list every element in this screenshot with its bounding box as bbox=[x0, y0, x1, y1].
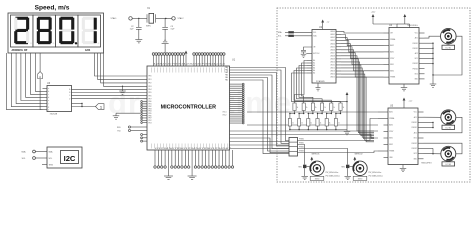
wire servo1 signal bbox=[298, 145, 305, 165]
svg-text:LED13: LED13 bbox=[330, 71, 335, 73]
svg-text:PGND1: PGND1 bbox=[413, 48, 418, 50]
svg-text:OE: OE bbox=[313, 47, 315, 49]
motor M2 wires bbox=[424, 116, 441, 118]
wire PWM1 to block bbox=[230, 144, 290, 146]
wire U2 A5 to ladder bbox=[292, 73, 341, 103]
microcontroller U1 body bbox=[147, 66, 230, 150]
svg-text:LED02: LED02 bbox=[330, 37, 335, 39]
DC motor M1 bbox=[441, 28, 457, 44]
svg-text:PB0: PB0 bbox=[149, 101, 152, 103]
svg-text:SERVO1: SERVO1 bbox=[311, 154, 320, 156]
wire PWM bundle 5 bbox=[230, 80, 290, 154]
svg-text:PB6: PB6 bbox=[149, 115, 152, 117]
digit cell 1 showing 2 bbox=[11, 15, 34, 47]
wires U2 bundle down bbox=[341, 56, 374, 131]
wire TRIG stub bbox=[42, 164, 47, 166]
wire PWM bundle 1 bbox=[230, 70, 290, 143]
wire to ground bbox=[191, 150, 193, 176]
svg-text:PW_MIN=544us: PW_MIN=544us bbox=[326, 172, 339, 174]
svg-text:MICROCONTROLLER: MICROCONTROLLER bbox=[161, 105, 217, 111]
digit cell 3 showing 0 bbox=[56, 15, 79, 47]
wire digit select 4 bbox=[104, 53, 148, 86]
svg-text:Speed, m/s: Speed, m/s bbox=[35, 5, 70, 12]
wire segment a display to U3 bbox=[7, 53, 43, 110]
DC motor M3 bbox=[441, 146, 456, 161]
svg-text:PW_MAX=2400us: PW_MAX=2400us bbox=[369, 174, 383, 177]
svg-text:BO1: BO1 bbox=[414, 138, 417, 140]
wire STBY U5 bbox=[230, 130, 379, 132]
zigzag link 6 bbox=[336, 111, 341, 119]
svg-text:XTAL2: XTAL2 bbox=[178, 17, 185, 20]
U2 OE pin with pulldown bbox=[304, 47, 313, 50]
svg-text:LED09: LED09 bbox=[330, 58, 335, 60]
resistor R6b bbox=[334, 119, 337, 127]
svg-text:LED01: LED01 bbox=[330, 34, 335, 36]
wire SDA bbox=[35, 151, 47, 153]
capacitor C2 bbox=[138, 18, 140, 27]
zigzag link 1 bbox=[290, 111, 295, 119]
U4 ground bbox=[403, 84, 405, 88]
MCU right unconnected pins bbox=[230, 83, 243, 85]
connector SERVO1 bbox=[303, 165, 306, 168]
svg-text:PWM0: PWM0 bbox=[299, 139, 304, 141]
svg-text:BO2: BO2 bbox=[414, 153, 417, 155]
svg-text:EXTCLK: EXTCLK bbox=[313, 53, 320, 55]
svg-text:+12v: +12v bbox=[409, 101, 413, 103]
ground SERVO2 bbox=[347, 168, 349, 176]
terminal XTAL2 bbox=[172, 17, 175, 20]
svg-text:PE4: PE4 bbox=[149, 89, 152, 91]
wire AIN1 U5 bbox=[247, 111, 378, 113]
svg-text:TB6612FNG: TB6612FNG bbox=[421, 163, 432, 165]
svg-text:PE5: PE5 bbox=[149, 92, 152, 94]
svg-text:B: B bbox=[69, 92, 70, 94]
svg-text:SERVO2: SERVO2 bbox=[354, 154, 363, 156]
svg-text:PE2: PE2 bbox=[149, 83, 152, 85]
wire U2 A2 to ladder bbox=[299, 66, 313, 104]
ground SERVO1 bbox=[304, 168, 306, 176]
wire to ground bbox=[167, 150, 169, 176]
MCU left unconnected pins bbox=[143, 101, 147, 103]
svg-text:RX0: RX0 bbox=[117, 127, 121, 129]
wire PWM bundle 3 bbox=[230, 75, 290, 148]
svg-text:PE0: PE0 bbox=[149, 76, 152, 78]
U5 +12V arrow bbox=[403, 98, 406, 101]
svg-text:PGND1: PGND1 bbox=[412, 122, 417, 124]
svg-text:BIN2: BIN2 bbox=[390, 70, 394, 72]
motor M1 label bbox=[442, 45, 455, 49]
net flag on DP wire bbox=[38, 72, 43, 79]
wire PWM3 to block bbox=[230, 138, 290, 153]
svg-text:PB7: PB7 bbox=[149, 118, 152, 120]
+5V arrow SERVO1 bbox=[310, 157, 313, 160]
svg-text:a: a bbox=[48, 88, 49, 90]
motor M3 wires bbox=[424, 153, 441, 155]
svg-text:b: b bbox=[48, 91, 49, 93]
svg-text:BO1: BO1 bbox=[415, 58, 418, 60]
wire PWM bundle 2 bbox=[230, 73, 290, 146]
svg-text:LED15: LED15 bbox=[330, 77, 335, 79]
U5 ground bbox=[402, 165, 404, 169]
ladder top rail bbox=[295, 101, 348, 103]
svg-text:LED07: LED07 bbox=[330, 52, 335, 54]
svg-text:d: d bbox=[48, 97, 49, 99]
svg-text:PWM3: PWM3 bbox=[299, 151, 304, 153]
wire U2 A4 to ladder bbox=[294, 71, 331, 104]
wire PWM2 to block bbox=[230, 148, 290, 150]
wire PWM0 to block bbox=[230, 141, 290, 143]
svg-text:LED06: LED06 bbox=[330, 49, 335, 51]
svg-text:PGND1: PGND1 bbox=[412, 127, 417, 129]
ground ladder bbox=[346, 130, 348, 132]
svg-text:LED14: LED14 bbox=[330, 74, 335, 76]
terminal SCL bbox=[33, 157, 36, 160]
svg-text:SDA: SDA bbox=[21, 150, 26, 153]
ground near U3 bbox=[116, 112, 140, 114]
svg-text:PGND2: PGND2 bbox=[412, 143, 417, 145]
wire U2 A0 to ladder bbox=[295, 61, 307, 104]
PWM connector block bbox=[289, 138, 298, 157]
svg-text:BIN1: BIN1 bbox=[389, 138, 393, 140]
svg-text:PE1: PE1 bbox=[149, 79, 152, 81]
svg-text:PWM2: PWM2 bbox=[299, 147, 304, 149]
connector SERVO2 bbox=[346, 165, 349, 168]
resistor R6a bbox=[339, 103, 342, 111]
svg-text:PB5: PB5 bbox=[149, 113, 152, 115]
wire U3 to MCU bbox=[72, 95, 148, 97]
wire segment DP to U3 bbox=[39, 53, 41, 110]
svg-text:▲: ▲ bbox=[39, 76, 42, 79]
svg-text:LED12: LED12 bbox=[330, 68, 335, 70]
svg-text:PB2: PB2 bbox=[149, 106, 152, 108]
BCD decoder U3 bbox=[47, 86, 72, 112]
svg-text:SCL: SCL bbox=[49, 158, 53, 160]
MCU top pin header group 2 bbox=[193, 55, 195, 66]
svg-text:DC M1: DC M1 bbox=[446, 47, 452, 49]
svg-text:PW_MAX=2400us: PW_MAX=2400us bbox=[326, 174, 340, 177]
zigzag link 4 bbox=[318, 111, 323, 119]
svg-text:1234: 1234 bbox=[85, 49, 91, 52]
MCU RX TX pins bbox=[131, 126, 147, 128]
wire segment g display to U3 bbox=[35, 53, 42, 91]
resistor R3a bbox=[311, 103, 314, 111]
wire U3 to MCU bbox=[72, 98, 148, 100]
svg-text:SG90: SG90 bbox=[358, 179, 363, 181]
MCU bottom pins bbox=[154, 150, 156, 166]
MCU inner pin label fuzz top bbox=[151, 68, 153, 73]
zigzag link 2 bbox=[299, 111, 304, 119]
svg-text:h: h bbox=[48, 109, 49, 111]
svg-text:PW_MIN=544us: PW_MIN=544us bbox=[369, 172, 382, 174]
wires U2 to U4 bbox=[341, 32, 384, 33]
dashed module border bbox=[277, 8, 470, 182]
svg-text:PGND1: PGND1 bbox=[413, 43, 418, 45]
U2 VSS ground bbox=[317, 83, 319, 88]
svg-text:g: g bbox=[48, 106, 49, 108]
wire U2 A3 to ladder bbox=[297, 68, 323, 103]
resistor R3b bbox=[307, 119, 310, 127]
motor M3 label bbox=[442, 162, 455, 166]
wire segment c display to U3 bbox=[16, 53, 42, 104]
svg-text:PGND2: PGND2 bbox=[413, 63, 418, 65]
resistor R2b bbox=[298, 119, 301, 127]
ground tap on select wire bbox=[122, 86, 123, 87]
wire SCL bbox=[35, 157, 47, 159]
svg-text:BIN1: BIN1 bbox=[390, 64, 394, 66]
wire digit select 3 bbox=[101, 53, 147, 83]
terminal SDA bbox=[33, 150, 36, 153]
wire segment f display to U3 bbox=[31, 53, 43, 94]
svg-text:74LS48: 74LS48 bbox=[50, 114, 58, 116]
motor M1 wires bbox=[425, 36, 441, 38]
wire U3 to MCU bbox=[72, 88, 148, 90]
ground C2 bbox=[135, 40, 142, 43]
ladder bottom bus bbox=[290, 129, 347, 131]
svg-text:TRIG: TRIG bbox=[49, 165, 54, 167]
wire PWM bundle 0 bbox=[230, 68, 290, 141]
net flag 1 bbox=[96, 104, 105, 110]
svg-text:LED10: LED10 bbox=[330, 61, 335, 63]
svg-text:PB3: PB3 bbox=[149, 108, 152, 110]
motor M2 label bbox=[442, 125, 455, 129]
+5V arrow ladder bbox=[346, 92, 349, 95]
svg-text:PE7: PE7 bbox=[149, 98, 152, 100]
svg-text:LED03: LED03 bbox=[330, 40, 335, 42]
svg-text:e: e bbox=[48, 100, 49, 102]
decimal point bbox=[75, 42, 77, 44]
svg-text:PWMB: PWMB bbox=[389, 151, 394, 153]
wire U3 to MCU bbox=[72, 92, 148, 94]
svg-text:PD2: PD2 bbox=[149, 120, 152, 122]
svg-text:SCL: SCL bbox=[313, 32, 316, 34]
svg-text:15pF: 15pF bbox=[171, 29, 175, 31]
wire xtal left bbox=[132, 17, 147, 19]
wire servo2 signal bbox=[298, 149, 348, 165]
svg-text:PE3: PE3 bbox=[149, 86, 152, 88]
svg-text:ABCDEFG DP: ABCDEFG DP bbox=[12, 49, 28, 52]
resistor R4a bbox=[321, 103, 324, 111]
svg-text:PGND2: PGND2 bbox=[413, 68, 418, 70]
svg-text:LED11: LED11 bbox=[330, 64, 335, 66]
svg-text:+5v: +5v bbox=[327, 22, 330, 24]
svg-text:PE6: PE6 bbox=[149, 95, 152, 97]
wire segment e display to U3 bbox=[26, 53, 43, 97]
U2 VCC arrow bbox=[321, 20, 324, 23]
wire digit select 2 bbox=[98, 53, 147, 79]
svg-text:TX0: TX0 bbox=[117, 130, 120, 132]
svg-text:PB4: PB4 bbox=[149, 111, 152, 113]
svg-text:LED08: LED08 bbox=[330, 55, 335, 57]
svg-text:SG90: SG90 bbox=[315, 179, 320, 181]
svg-text:SCL: SCL bbox=[278, 36, 282, 38]
zigzag link 3 bbox=[308, 111, 313, 119]
MCU top pin header group 1 bbox=[153, 55, 155, 66]
svg-text:PD3: PD3 bbox=[149, 122, 152, 124]
svg-text:123456789012345678901234: 123456789012345678901234 bbox=[153, 64, 226, 66]
resistor R4b bbox=[316, 119, 319, 127]
zigzag link 5 bbox=[327, 111, 332, 119]
svg-text:+12v: +12v bbox=[371, 12, 375, 14]
svg-text:LED05: LED05 bbox=[330, 46, 335, 48]
wire PWM bundle 4 bbox=[230, 78, 290, 152]
digit cell 4 showing 1 bbox=[78, 15, 101, 47]
wire digit select 1 bbox=[95, 53, 148, 76]
ground C3 shared bbox=[162, 40, 169, 43]
+5V arrow SERVO2 bbox=[353, 157, 356, 160]
digit cell 2 showing 8 bbox=[33, 15, 56, 47]
resistor R5b bbox=[325, 119, 328, 127]
wire AIN2 U5 bbox=[247, 124, 378, 126]
svg-text:DC M3: DC M3 bbox=[446, 164, 452, 166]
svg-text:PCA9685: PCA9685 bbox=[316, 80, 325, 83]
svg-text:OSC1: OSC1 bbox=[222, 112, 226, 114]
svg-text:LED04: LED04 bbox=[330, 43, 335, 45]
wire PWMB U5 bbox=[298, 151, 379, 153]
svg-text:I2C: I2C bbox=[64, 154, 76, 163]
wire segment b display to U3 bbox=[11, 53, 42, 107]
resistor R2a bbox=[302, 103, 305, 111]
U2 EXTCLK stub bbox=[306, 53, 312, 55]
svg-text:PWM1: PWM1 bbox=[299, 143, 304, 145]
svg-text:PWMB: PWMB bbox=[390, 77, 395, 79]
capacitor C3 bbox=[164, 18, 166, 27]
wire PWMA U5 bbox=[298, 119, 379, 141]
ground motor bus bbox=[432, 75, 434, 84]
wire segment d display to U3 bbox=[21, 53, 43, 101]
resistor R1b bbox=[288, 119, 291, 127]
svg-text:TB6612FNG: TB6612FNG bbox=[407, 25, 418, 27]
I2C module box bbox=[47, 147, 82, 168]
svg-text:15pF: 15pF bbox=[130, 29, 134, 31]
wire BIN1 U5 bbox=[230, 135, 379, 139]
svg-text:LED00: LED00 bbox=[330, 31, 335, 33]
wire xtal right bbox=[156, 17, 172, 19]
vcc arrow pin top bbox=[185, 51, 188, 54]
DC motor M2 bbox=[441, 110, 456, 125]
pins U3 LT/BI with junctions bbox=[72, 103, 83, 105]
7-segment display module DS1 bbox=[8, 13, 104, 53]
svg-text:BIN2: BIN2 bbox=[389, 144, 393, 146]
svg-text:0123456789012345678901234567: 0123456789012345678901234567 bbox=[155, 148, 232, 150]
svg-text:XTAL1: XTAL1 bbox=[111, 17, 118, 20]
servo part label SERVO2 bbox=[353, 176, 367, 180]
svg-text:DC M2: DC M2 bbox=[446, 127, 452, 129]
svg-text:PB1: PB1 bbox=[149, 104, 152, 106]
svg-text:8MHz: 8MHz bbox=[146, 25, 151, 27]
wire U2 A1 to ladder bbox=[302, 63, 307, 103]
svg-text:BO2: BO2 bbox=[415, 73, 418, 75]
servo part label SERVO1 bbox=[310, 176, 324, 180]
svg-text:PGND2: PGND2 bbox=[412, 148, 417, 150]
svg-text:OSC2: OSC2 bbox=[222, 115, 226, 117]
resistor R5a bbox=[330, 103, 333, 111]
resistor R1a bbox=[293, 103, 296, 111]
